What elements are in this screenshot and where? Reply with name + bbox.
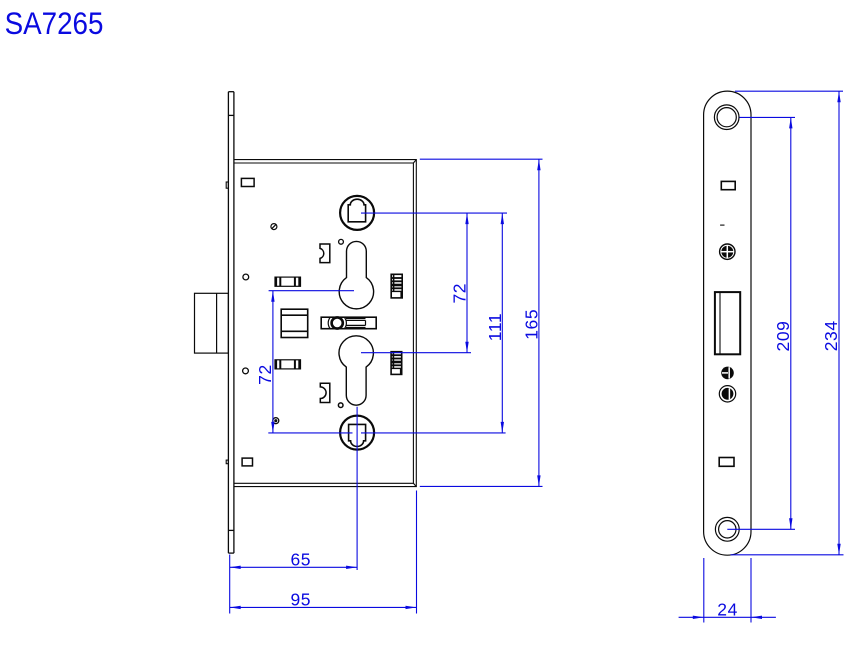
coil spring lower-right [391,352,402,375]
side slot lower [719,458,734,467]
spring box [281,309,308,337]
side screw B [719,386,735,402]
dim 72 left [271,291,274,433]
dim 24 [679,616,776,619]
small ring near top follower [339,239,344,244]
lock case outline [235,160,417,487]
case slot upper-left [241,178,254,186]
latch bolt [195,293,229,353]
screw with slot [271,224,277,230]
dim 95 [230,606,417,609]
coil spring upper-right [391,274,402,298]
euro cylinder hole lower [339,336,373,405]
dim 165 [537,159,540,486]
side slot upper [721,181,735,189]
dim 209 [789,117,792,529]
side latch opening [715,292,740,354]
side view faceplate outline [704,91,751,555]
side phillips screw upper [720,244,735,259]
hole circle left lower [243,368,249,374]
side screw A [721,367,734,380]
svg-text:72: 72 [449,283,469,304]
spring housing lower-left [275,360,301,369]
spring clip lower [320,383,330,402]
dim 234 [837,91,840,555]
euro cylinder hole upper [339,241,373,308]
follower hub upper [340,196,374,230]
svg-text:111: 111 [485,313,505,341]
svg-text:95: 95 [290,590,311,610]
small ring near lower clip [338,403,343,408]
faceplate tab upper [226,182,228,188]
svg-text:65: 65 [290,550,311,570]
spring clip upper [320,244,330,263]
svg-text:SA7265: SA7265 [5,6,104,41]
follower hub lower [340,416,374,450]
dimension extension lines (front view) [230,159,543,613]
dim 72 right [465,213,468,353]
svg-text:72: 72 [255,364,275,385]
side bottom screw hole [715,517,739,541]
spring housing upper-left [275,277,301,286]
case slot lower-left [242,458,252,466]
lever crank assembly [321,317,376,329]
hole circle left upper [243,274,249,280]
faceplate edge strip (front view) [228,92,234,553]
svg-text:234: 234 [821,320,841,351]
svg-text:165: 165 [521,309,541,340]
side small dash [720,224,724,226]
svg-text:24: 24 [717,600,738,620]
faceplate tab lower [226,460,228,464]
side top screw hole [714,105,739,130]
pivot screw with dot [273,418,279,424]
dim 111 [501,213,504,433]
svg-text:209: 209 [773,321,793,352]
dim 65 [230,566,357,569]
dimension extension lines (side view) [704,91,844,622]
